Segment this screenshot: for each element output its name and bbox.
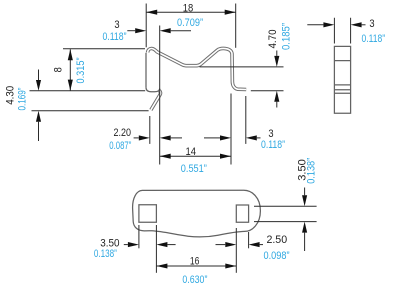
front view: diagonal leg (double line) — [151, 90, 161, 110]
dim 18 line — [146, 11, 236, 13]
svg-text:0.551”: 0.551” — [181, 163, 207, 175]
dim 4.30 top arrow — [38, 70, 40, 81]
dim 18 right arrow — [225, 10, 236, 15]
svg-text:2.50: 2.50 — [266, 234, 287, 246]
extension line y=90.7 from foot (4.70 bottom ref) — [251, 90, 284, 92]
dim 3 top: right arrow+tail — [171, 30, 191, 32]
dim 3 top: left arrow+tail — [127, 30, 135, 32]
extension line x=235.7 (18 right) — [235, 4, 237, 48]
svg-text:0.118”: 0.118” — [362, 33, 386, 45]
svg-text:0.630”: 0.630” — [182, 274, 207, 286]
dim 3.50 right: arrows — [304, 188, 306, 196]
extension line y=66.9 from dip (4.70 top ref) — [200, 66, 284, 68]
side view division lines — [334, 61, 350, 94]
svg-text:2.20: 2.20 — [114, 127, 132, 139]
dim 14 left arrow — [160, 154, 171, 159]
extension line x=231 (14 right / 3 left) — [230, 94, 232, 165]
dim 4.70 bottom arrow — [276, 102, 278, 108]
svg-text:0.709”: 0.709” — [177, 17, 203, 29]
svg-text:8: 8 — [53, 67, 65, 72]
dim 2.20 left arrow+tail — [134, 137, 139, 139]
dim 3 side left arrow+tail — [307, 24, 323, 26]
dim 8 line with arrows — [69, 49, 71, 90]
extension line x=159.7 (3 right / 2.20 right / 14 left) — [159, 26, 161, 165]
plan ext lines — [138, 225, 140, 248]
dim 3 side right arrow+tail — [362, 24, 366, 26]
svg-text:3: 3 — [114, 19, 119, 31]
extension line y=48.8 (8 top ref) — [63, 48, 145, 50]
extension line y=90.8 (8 bottom / 4.30 top ref) — [30, 90, 146, 92]
dim 4.30 bottom arrow — [38, 122, 40, 141]
dim 16 line — [156, 265, 236, 267]
extension line x=245.8 (3 right) — [245, 96, 247, 144]
svg-text:16: 16 — [190, 256, 200, 268]
plan view outline — [133, 190, 261, 237]
side view extension lines — [334, 18, 350, 44]
side view rectangle — [334, 46, 350, 113]
svg-text:18: 18 — [183, 3, 194, 15]
plan view left square hole — [139, 205, 157, 223]
svg-text:4.30: 4.30 — [4, 86, 16, 105]
dim 14 right arrow — [220, 154, 231, 159]
svg-text:0.118”: 0.118” — [261, 139, 285, 151]
dim 3 bottom left arrow+tail — [204, 137, 220, 139]
svg-text:0.169”: 0.169” — [16, 87, 28, 110]
dim 3 bottom right arrow+tail — [257, 137, 261, 139]
extension line x=146.2 (18 & 3 left) — [145, 4, 147, 48]
dim 2.20 right arrow+tail — [171, 137, 182, 139]
svg-text:0.138”: 0.138” — [306, 157, 318, 183]
plan view right hole — [236, 205, 248, 222]
svg-text:0.098”: 0.098” — [264, 250, 290, 262]
svg-text:0.185”: 0.185” — [281, 23, 293, 50]
dim 18 left arrow — [146, 10, 157, 15]
svg-text:0.315”: 0.315” — [75, 57, 87, 83]
svg-text:0.087”: 0.087” — [109, 140, 131, 152]
dim 14 line — [160, 155, 231, 157]
svg-text:3: 3 — [369, 18, 374, 30]
svg-text:4.70: 4.70 — [267, 30, 279, 49]
dim 4.70 top arrow — [276, 51, 278, 56]
svg-text:14: 14 — [186, 146, 197, 158]
front view: left vertical of end fold — [145, 53, 147, 88]
dim 2.50: arrows — [216, 244, 226, 246]
front view: sheet wavy top (hump, dip, crest, right leg, foot) double line — [148, 48, 247, 89]
extension line x=149.8 (2.20 left) — [149, 116, 151, 144]
svg-text:0.118”: 0.118” — [103, 31, 127, 43]
extension line y=110.8 (4.30 bottom ref) — [32, 110, 149, 112]
svg-text:0.138”: 0.138” — [94, 248, 117, 260]
front view: bottom U of end fold — [146, 87, 160, 92]
dim 3.50 left: arrows — [124, 244, 128, 246]
